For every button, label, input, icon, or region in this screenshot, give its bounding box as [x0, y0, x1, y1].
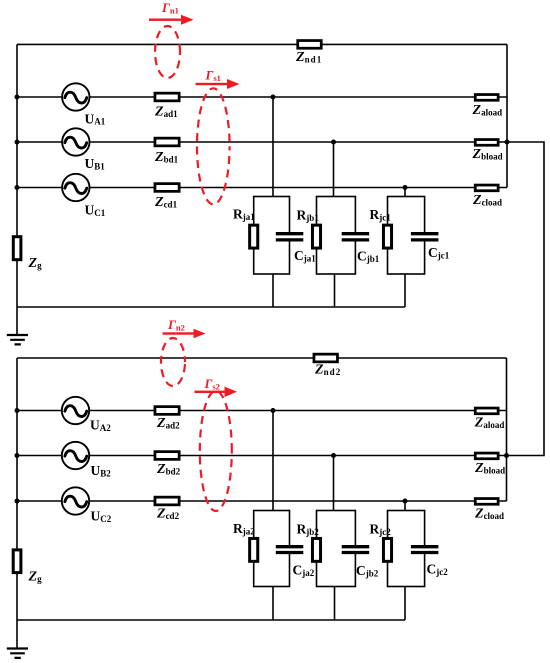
wire RC loop c2	[388, 511, 425, 587]
wire RC loop a2	[254, 511, 290, 587]
wire RC loop a1	[254, 197, 290, 275]
wire stub a1 to neutral rail	[272, 274, 274, 307]
current arrow r_s1	[196, 79, 240, 89]
capacitor C_ja1	[276, 234, 304, 240]
wire phase C1	[17, 187, 507, 189]
node interconnect 2	[504, 453, 509, 458]
node drop A1	[271, 95, 276, 100]
source U_A1	[62, 83, 89, 110]
wire phase A2	[17, 410, 507, 412]
wire top neutral bus 1	[17, 43, 507, 45]
source U_B1	[62, 128, 89, 155]
wire stub b1 to neutral rail	[334, 274, 336, 307]
node drop A2	[271, 408, 276, 413]
node drop C2	[403, 499, 408, 504]
node interconnect 1	[505, 140, 510, 145]
wire right bus 1	[506, 44, 508, 187]
BOTTOM CIRCUIT 2	[17, 358, 507, 648]
wire RC loop c1	[388, 197, 425, 275]
resistor Z_nd1	[298, 41, 322, 49]
source U_C2	[62, 487, 89, 514]
resistor Z_g1	[13, 237, 21, 260]
node phase A2 left	[15, 408, 20, 413]
resistor R_ja2	[250, 538, 258, 561]
resistor Z_cd1	[155, 184, 179, 192]
node drop B2	[331, 453, 336, 458]
ground 1	[7, 335, 28, 344]
capacitor C_ja2	[276, 547, 304, 553]
node phase C1 left	[15, 185, 20, 190]
wire phase C2	[17, 500, 507, 502]
capacitor C_jb2	[342, 547, 370, 553]
loop ellipse r_n2	[161, 338, 185, 386]
source U_C1	[62, 174, 89, 201]
current arrow r_n2	[163, 329, 206, 338]
resistor Z_cload1	[475, 185, 498, 191]
resistor Z_ad1	[155, 93, 179, 101]
wire drop C2 to RC block	[404, 501, 406, 511]
resistor Z_bd2	[155, 452, 179, 460]
loop ellipse r_s1	[197, 88, 230, 204]
wire neutral return rail 1	[17, 306, 405, 308]
resistor Z_aload1	[475, 95, 498, 101]
wire phase A1	[17, 96, 507, 98]
ground 2	[7, 649, 28, 658]
source U_A2	[62, 397, 89, 424]
wire stub c2 to neutral rail	[404, 587, 406, 621]
node phase B1 left	[15, 140, 20, 145]
wire right bus 2	[506, 358, 508, 501]
capacitor gap patches circuit 1	[287, 235, 428, 238]
resistor Z_cd2	[155, 497, 179, 505]
wire interconnect from Zbload1 to circuit 2	[507, 142, 544, 456]
wire RC loop b1	[317, 197, 356, 275]
resistor Z_g2	[13, 550, 21, 573]
wire drop A2 to RC block	[272, 411, 274, 511]
resistor R_jc2	[383, 538, 391, 561]
source U_B2	[62, 442, 89, 469]
capacitor C_jc1	[411, 234, 439, 240]
resistor R_jb2	[312, 538, 320, 561]
wire stub a2 to neutral rail	[272, 587, 274, 621]
resistor Z_bload1	[475, 140, 498, 146]
wire stub c1 to neutral rail	[404, 274, 406, 307]
current arrow r_s2	[195, 387, 238, 397]
current arrow r_n1	[149, 15, 194, 25]
resistor R_jb1	[312, 225, 320, 248]
wire top neutral bus 2	[17, 357, 507, 359]
resistor R_ja1	[250, 225, 258, 248]
capacitor gap patches circuit 2	[287, 548, 428, 551]
wire drop C1 to RC block	[404, 188, 406, 197]
wire stub b2 to neutral rail	[334, 587, 336, 621]
wire left bus 2	[16, 358, 18, 648]
wire neutral return rail 2	[17, 619, 405, 621]
node phase A1 left	[15, 95, 20, 100]
resistor Z_bd1	[155, 138, 179, 146]
resistor R_jc1	[383, 225, 391, 248]
resistor Z_aload2	[475, 408, 498, 414]
resistor Z_bload2	[475, 453, 498, 459]
wire phase B1	[17, 141, 507, 143]
resistor Z_ad2	[155, 407, 179, 415]
wire drop B1 to RC block	[333, 142, 335, 197]
wire drop A1 to RC block	[272, 97, 274, 197]
resistor Z_cload2	[475, 499, 498, 505]
node phase B2 left	[15, 453, 20, 458]
node drop B1	[331, 140, 336, 145]
wire drop B2 to RC block	[333, 456, 335, 511]
loop ellipse r_s2	[200, 391, 232, 511]
wire phase B2	[17, 455, 507, 457]
node drop C1	[403, 185, 408, 190]
resistor Z_nd2	[314, 354, 338, 362]
capacitor C_jc2	[411, 547, 439, 553]
wire left bus 1	[16, 44, 18, 335]
loop ellipse r_n1	[155, 26, 180, 78]
node phase C2 left	[15, 499, 20, 504]
wire RC loop b2	[317, 511, 356, 587]
capacitor C_jb1	[342, 234, 370, 240]
